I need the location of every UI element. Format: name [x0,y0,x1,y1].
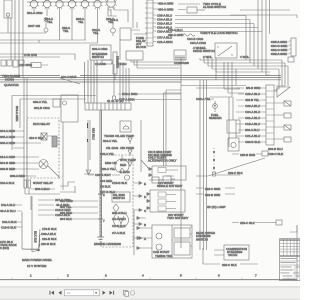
svg-text:170-A BLU: 170-A BLU [168,28,183,32]
box right r1 [227,120,240,133]
junction block row (left, y60) [1,60,24,67]
lamp L3 [54,0,64,9]
svg-text:309-A BLU: 309-A BLU [245,128,260,132]
box right r2 [228,138,239,151]
svg-text:131-B BLK: 131-B BLK [42,237,57,241]
wire engine pins [133,182,142,240]
wire left pins to boxes [134,210,152,255]
svg-text:C13-B BLK: C13-B BLK [112,181,127,185]
relay RUN dashed box [27,118,59,178]
sender fuel [211,99,217,112]
wire h85 right [181,86,246,89]
wire v141 [141,120,150,172]
wire h176 [10,175,36,177]
wire center tall bundle [181,58,207,250]
lamp L2 [42,0,52,9]
connector J4 [52,136,60,147]
box combination valve [214,245,249,260]
wire run relay feeds [13,131,41,148]
relay K2 [284,113,291,118]
box cab harness left [61,95,78,190]
tick marks ms [87,123,89,142]
box oil switch [112,192,130,202]
svg-text:323-C BLK: 323-C BLK [222,263,237,267]
svg-text:C31-A BLU: C31-A BLU [245,116,260,120]
svg-text:301-B ORG: 301-B ORG [34,106,50,110]
svg-text:B: B [144,223,146,227]
svg-text:C21-A BRN: C21-A BRN [157,40,173,44]
switch S1 [215,43,237,58]
box small d2 [163,176,175,183]
toolbar button first page [50,291,55,295]
wire lamp drops [34,7,114,43]
wire v114 [113,64,116,100]
wire pp left [16,196,38,252]
relay K1 [284,101,291,106]
connector strip J1 (center top) [145,0,153,46]
dimmer D1 [113,52,120,74]
box small d1 [149,177,163,183]
wire cab box double [164,90,182,166]
wire left vertical bus [11,0,23,78]
starter M3 [114,213,129,228]
lamp L5 [80,0,90,9]
svg-text:CYB 1PN: CYB 1PN [24,53,37,57]
svg-text:324-A YEL: 324-A YEL [103,139,118,143]
relay K3 [284,125,291,130]
svg-text:304 BLK: 304 BLK [60,217,72,221]
wire top box drop [7,18,9,33]
svg-text:C26-A BLU: C26-A BLU [245,104,260,108]
svg-text:BLK 318: BLK 318 [34,231,38,243]
wire cluster stubs [270,42,289,54]
wire pp right labels [38,200,54,215]
svg-text:423-A GRN: 423-A GRN [158,2,173,6]
wire far right h15 [230,10,297,18]
wire dimmer stubs [111,63,129,80]
ground GND1 [97,237,104,242]
svg-text:C33-A WHT: C33-A WHT [95,173,111,177]
wire j2 label stubs [260,88,263,142]
svg-text:QUARTER: QUARTER [4,83,19,87]
coil W1 [183,34,195,36]
svg-text:E: E [144,182,146,186]
svg-text:COMPASS: COMPASS [174,61,189,65]
sender S2 [128,138,132,144]
svg-text:430-A GRN: 430-A GRN [158,8,173,12]
toolbar page field [65,290,100,296]
svg-text:C2-B BLK: C2-B BLK [112,224,125,228]
wire nest mid [200,58,262,72]
svg-text:A: A [144,237,146,241]
svg-text:1007 GN: 1007 GN [28,24,40,28]
svg-text:C19-B BLK: C19-B BLK [1,226,16,230]
wire c33 [88,120,120,175]
wire main bus h75 [0,76,281,83]
svg-text:100-A WHT: 100-A WHT [61,75,77,79]
svg-text:AIR TEMP: AIR TEMP [120,134,134,138]
connector J3 [289,38,296,56]
svg-text:173-B BLK: 173-B BLK [42,227,57,231]
wire j2 left feeds [236,88,244,142]
wire 176 right [216,174,240,176]
wire steering drop verticals [85,60,98,103]
svg-text:2 WHL: 2 WHL [203,55,213,59]
resistor block H7 [26,63,48,68]
sender S3 [128,150,132,156]
wire top gauge bus [27,1,116,3]
battery box B2 [146,190,185,212]
svg-text:DIMMER: DIMMER [116,56,120,69]
svg-text:C29-C BLK: C29-C BLK [268,152,283,156]
svg-text:IC2-A BLU: IC2-A BLU [1,203,15,207]
wire right mid nest [210,62,244,147]
svg-text:428-B YEL: 428-B YEL [245,98,260,102]
wire h62 nest [131,60,180,68]
wire right nest verticals [246,0,270,75]
lamp L6 [92,0,102,9]
svg-text:1/1: 1/1 [67,291,72,295]
wire diag left [60,78,80,84]
titleblock revision table [280,239,301,256]
box J3b [288,57,294,62]
svg-text:OIL 5MBSWITCH: OIL 5MBSWITCH [113,193,125,200]
connector block A (top-left) [4,0,12,18]
border ticks [12,278,288,280]
toolbar button next page [103,291,106,295]
svg-text:5/8-B BRN: 5/8-B BRN [246,86,260,90]
border right [296,225,298,281]
relay bars [24,180,31,188]
svg-text:C2-A RED: C2-A RED [112,217,127,221]
svg-text:223-C BLK: 223-C BLK [240,221,255,225]
wire big diagonal [196,158,265,176]
harness ENGINE dashed box [101,155,133,247]
diamond DA [113,204,119,212]
svg-text:209-A BLU: 209-A BLU [112,211,127,215]
wire stub tb [290,225,297,232]
wire h54 [0,54,75,60]
svg-text:ENGINE HARNESS: ENGINE HARNESS [94,242,121,246]
magneto M2 [124,175,129,180]
svg-text:OIL GAG: OIL GAG [106,146,119,150]
svg-text:318-A: 318-A [110,18,118,22]
svg-text:220-B BLK: 220-B BLK [41,242,56,246]
svg-text:102-A BLK: 102-A BLK [0,181,14,185]
lamp L8 [44,18,48,25]
wire sol feeds [12,157,39,169]
dashed sensor chain [213,148,216,176]
wire mid-left h95 [12,96,96,151]
svg-text:RED: RED [120,163,127,167]
toolbar button prev page [59,291,62,295]
sender S4 [128,162,132,166]
wire 323-C [203,248,258,264]
svg-text:305-A YEL: 305-A YEL [100,152,115,156]
wire h57 [0,56,60,58]
svg-text:304-A GRN: 304-A GRN [15,106,19,121]
svg-text:306-AYEL: 306-AYEL [76,17,84,24]
svg-text:323-B BRN: 323-B BRN [205,193,220,197]
svg-text:C34-A ORG: C34-A ORG [190,41,207,45]
svg-text:C36-B BLK: C36-B BLK [245,140,260,144]
titleblock rows [281,258,300,279]
wire 5c3 [118,93,181,95]
svg-text:4 WHL: 4 WHL [240,55,250,59]
svg-text:THROTTLE LOCK SWITCH: THROTTLE LOCK SWITCH [200,31,238,35]
bell B1 [120,121,131,132]
titleblock text [280,257,301,282]
horn H1 [274,87,290,97]
switch steering box [90,45,111,60]
wire h33 [0,32,46,34]
wire junction star [22,229,40,252]
svg-text:5C3-2 BRN: 5C3-2 BRN [122,92,137,96]
svg-text:323-C BRN: 323-C BRN [205,187,220,191]
box cab top [120,0,147,60]
relay K5 [41,133,52,140]
svg-text:TRANS OIL: TRANS OIL [104,134,120,138]
svg-text:303-A YEL: 303-A YEL [33,100,48,104]
cluster right mid labels [246,60,288,75]
svg-text:2B (11) LAMP: 2B (11) LAMP [207,205,226,209]
sender G2 [111,22,116,36]
terminal strip TS1 [85,103,131,110]
svg-text:WTR TEMP: WTR TEMP [120,158,136,162]
svg-text:328-A YEL: 328-A YEL [101,167,116,171]
wire ts1 top feeds [120,80,129,103]
svg-text:C23-A BLU: C23-A BLU [245,92,260,96]
wire color stubs [70,201,98,219]
svg-text:T: T [214,104,216,108]
component X1 [174,50,189,65]
svg-text:TIMING TRK: TIMING TRK [155,254,172,258]
toolbar button last page [110,291,115,295]
solenoid M1 [39,160,60,179]
wire ic2 stubs [15,205,22,211]
svg-text:C7-A BLK: C7-A BLK [112,231,125,235]
junction tick 2 [98,193,105,197]
box 24V [187,7,205,13]
wire lamp7 loop [108,9,128,22]
wire center double bus [100,110,102,237]
wire left relay bus [24,78,27,188]
svg-text:165-B BRN: 165-B BRN [240,153,255,157]
border bottom [0,279,297,281]
box small 102 [102,60,112,64]
left mid stepped wires [60,182,75,193]
svg-text:MAIN POWER PANEL: MAIN POWER PANEL [22,258,52,262]
toolbar [0,287,300,300]
svg-text:C13-A BLU: C13-A BLU [245,122,260,126]
svg-text:430-A GRN: 430-A GRN [168,33,183,37]
svg-text:209-B BLU: 209-B BLU [268,147,283,151]
wire label runs to right [175,4,262,32]
svg-text:C33-A BLK: C33-A BLK [41,232,56,236]
wire j2 right stubs [274,90,284,139]
svg-text:318 BLU: 318 BLU [92,128,96,140]
svg-text:301-A ORG: 301-A ORG [27,11,43,15]
wire 323 [196,188,235,194]
svg-text:AIR PRES: AIR PRES [120,146,134,150]
lamp L7 [105,0,116,9]
svg-text:C24-A BLU: C24-A BLU [245,110,260,114]
connector J2 (right) [263,85,274,145]
wire h40 step [0,40,98,43]
svg-text:102-A BLK: 102-A BLK [2,220,16,224]
svg-text:START RELAY: START RELAY [33,181,53,185]
box left edge mid [53,99,60,107]
battery box B1 [148,166,186,180]
toolbar button circle icon [130,291,134,295]
relay K4 [284,137,291,142]
alternator A1 [115,155,129,173]
timing box B3 [152,225,192,258]
wire right nest wrapdown [276,60,288,89]
svg-text:C23 GRN: C23 GRN [19,63,32,67]
svg-text:41 41 47 4C: 41 41 47 4C [107,99,124,103]
svg-text:C21-A BLU: C21-A BLU [245,134,260,138]
svg-text:303-A ORG: 303-A ORG [92,47,108,51]
sender G1 [44,24,48,33]
wire J1 stubs [153,3,158,42]
wire 223c [232,220,282,225]
box 165 [232,151,268,156]
svg-text:49-A K BLU: 49-A K BLU [0,209,16,213]
junction tick 7 [98,219,105,223]
svg-text:12 V SYSTEM: 12 V SYSTEM [27,264,47,268]
svg-text:RUN RELAY: RUN RELAY [33,122,50,126]
toolbar button pages icon [124,290,129,296]
lamp L1 [29,0,39,9]
lamp L4 [67,0,77,9]
svg-text:410-C BLK: 410-C BLK [29,136,44,140]
wire start relay [25,188,60,210]
wire c27 [114,99,181,101]
diode D2 [84,170,94,174]
svg-text:223-C BLK: 223-C BLK [228,171,243,175]
